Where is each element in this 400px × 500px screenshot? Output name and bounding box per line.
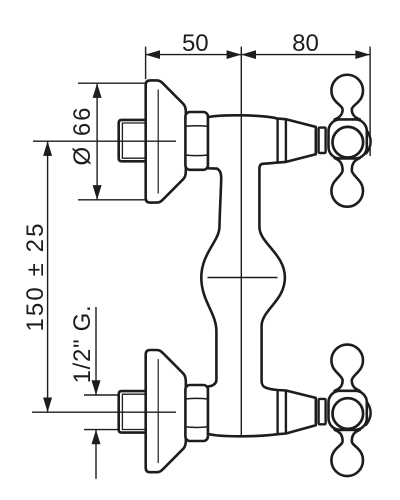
wire thread top extension xyxy=(84,394,122,396)
bottom nut facet lines xyxy=(186,397,207,400)
wire half-inch leader line xyxy=(95,307,97,395)
top valve step line 2 xyxy=(285,119,287,162)
arrow 80 right xyxy=(355,50,370,59)
wire extension line left (x=145) xyxy=(145,47,147,80)
arrow 50 left xyxy=(145,50,160,59)
top connection hex nut xyxy=(185,112,208,170)
top stem collar xyxy=(319,128,326,153)
bottom stem collar xyxy=(319,399,326,424)
wire dia66 bottom extension xyxy=(78,199,147,201)
svg-text:150 ± 25: 150 ± 25 xyxy=(22,221,49,331)
bottom handle inner circle xyxy=(333,398,364,429)
arrow half-inch down xyxy=(92,380,101,395)
wire top dimension line xyxy=(145,54,370,56)
wire 150 dimension line xyxy=(47,141,49,412)
top hub right cap xyxy=(366,129,371,155)
wire dia66 top extension xyxy=(78,82,147,84)
bottom handle lower lobe xyxy=(331,430,363,476)
bottom bell rim line xyxy=(157,359,159,463)
faucet body with two valves xyxy=(201,115,315,436)
bottom inlet pipe xyxy=(119,391,146,433)
bottom handle upper lobe xyxy=(331,345,363,391)
top bell rim line xyxy=(157,90,159,194)
wire extension line right (x=370) xyxy=(369,47,371,156)
wire dia66 dimension line xyxy=(96,84,98,199)
wire vertical centerline of body xyxy=(240,47,242,437)
top nut facet lines xyxy=(186,125,207,128)
arrow 150 down xyxy=(43,398,52,413)
svg-text:80: 80 xyxy=(292,30,319,57)
svg-text:1/2" G.: 1/2" G. xyxy=(69,305,96,384)
wire top pipe centerline xyxy=(33,140,176,142)
arrow dia66 down xyxy=(93,185,102,200)
top handle inner circle xyxy=(333,127,364,158)
svg-text:50: 50 xyxy=(182,30,209,57)
wire bottom pipe centerline xyxy=(32,411,176,413)
arrow 80 left xyxy=(241,50,256,59)
wire belly centerline xyxy=(208,277,278,279)
top handle hub xyxy=(329,120,367,159)
arrow dia66 up xyxy=(93,83,102,98)
bottom valve step line 1 xyxy=(276,390,278,434)
arrow 50 right xyxy=(227,50,242,59)
top inlet pipe xyxy=(119,120,146,161)
arrow thread up xyxy=(92,430,101,445)
bottom wall flange bell xyxy=(146,350,186,472)
wire thread lower arrow tail xyxy=(95,430,97,479)
svg-text:Ø 66: Ø 66 xyxy=(69,105,96,165)
top wall flange bell xyxy=(146,80,186,202)
bottom connection hex nut xyxy=(185,385,208,441)
bottom pipe chamfer line xyxy=(122,394,146,429)
bottom handle hub xyxy=(329,391,367,430)
top valve step line 1 xyxy=(276,119,278,163)
wire thread bottom extension xyxy=(84,429,122,431)
top pipe chamfer line xyxy=(122,123,146,158)
arrow 150 up xyxy=(43,141,52,156)
bottom valve step line 2 xyxy=(285,391,287,434)
top handle upper lobe xyxy=(331,75,363,120)
top handle lower lobe xyxy=(331,158,363,207)
bottom hub right cap xyxy=(366,400,371,426)
